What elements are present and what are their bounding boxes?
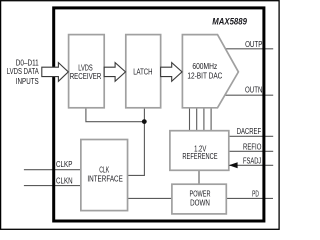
arrowhead FSADJ into reference — [229, 162, 238, 168]
svg-text:CLKN: CLKN — [56, 177, 73, 186]
wire DAC-reference pin 2 — [196, 108, 198, 131]
label D0-D11 LVDS DATA INPUTS — [7, 59, 39, 86]
block 600MHz 12-bit DAC — [182, 35, 238, 108]
svg-text:INPUTS: INPUTS — [16, 77, 39, 86]
wire REFIO — [229, 150, 273, 152]
IC boundary MAX5889 — [54, 8, 264, 221]
wire CLK interface to power down — [128, 197, 172, 199]
svg-text:12-BIT DAC: 12-BIT DAC — [187, 71, 222, 80]
block LATCH — [126, 35, 161, 108]
block LVDS receiver — [69, 35, 105, 108]
junction dot clock node — [142, 119, 147, 124]
wire OUTP — [226, 48, 274, 50]
block power down — [172, 184, 226, 214]
block CLK interface — [81, 140, 128, 211]
svg-text:600MHz: 600MHz — [192, 62, 217, 71]
svg-text:LVDS DATA: LVDS DATA — [7, 67, 39, 76]
block-arrow LVDS receiver to latch — [104, 63, 125, 82]
svg-text:FSADJ: FSADJ — [243, 157, 261, 166]
svg-text:OUTN: OUTN — [245, 86, 263, 95]
wire clock vertical to LATCH — [128, 108, 145, 176]
wire DACREF — [229, 135, 273, 137]
block-arrow data input — [42, 63, 69, 82]
wire DAC-reference pin 4 — [210, 108, 212, 131]
wire PD — [226, 197, 273, 199]
svg-text:DOWN: DOWN — [190, 199, 210, 208]
svg-text:REFERENCE: REFERENCE — [182, 152, 217, 161]
wire DAC-reference pin 1 — [189, 108, 191, 131]
wire CLKP input — [24, 169, 81, 171]
wire DAC-reference pin 3 — [203, 108, 205, 131]
wire reference to power down — [198, 170, 200, 184]
wire OUTN — [225, 94, 274, 96]
svg-text:DACREF: DACREF — [237, 127, 261, 136]
block-arrow latch to DAC — [161, 63, 182, 82]
wire FSADJ — [229, 164, 273, 166]
svg-text:CLKP: CLKP — [56, 160, 72, 169]
svg-text:POWER: POWER — [190, 190, 211, 199]
wire clock branch to LVDS receiver — [86, 108, 144, 122]
svg-text:LVDS: LVDS — [78, 63, 93, 72]
svg-text:REFIO: REFIO — [243, 142, 261, 151]
svg-text:CLK: CLK — [99, 166, 109, 175]
wire CLKN input — [24, 185, 81, 187]
svg-text:RECEIVER: RECEIVER — [70, 72, 102, 81]
svg-text:MAX5889: MAX5889 — [212, 16, 247, 26]
svg-text:INTERFACE: INTERFACE — [87, 174, 123, 183]
svg-text:LATCH: LATCH — [133, 67, 152, 76]
svg-text:OUTP: OUTP — [245, 40, 262, 49]
svg-text:PD: PD — [252, 189, 259, 198]
block 1.2V reference — [170, 131, 229, 171]
